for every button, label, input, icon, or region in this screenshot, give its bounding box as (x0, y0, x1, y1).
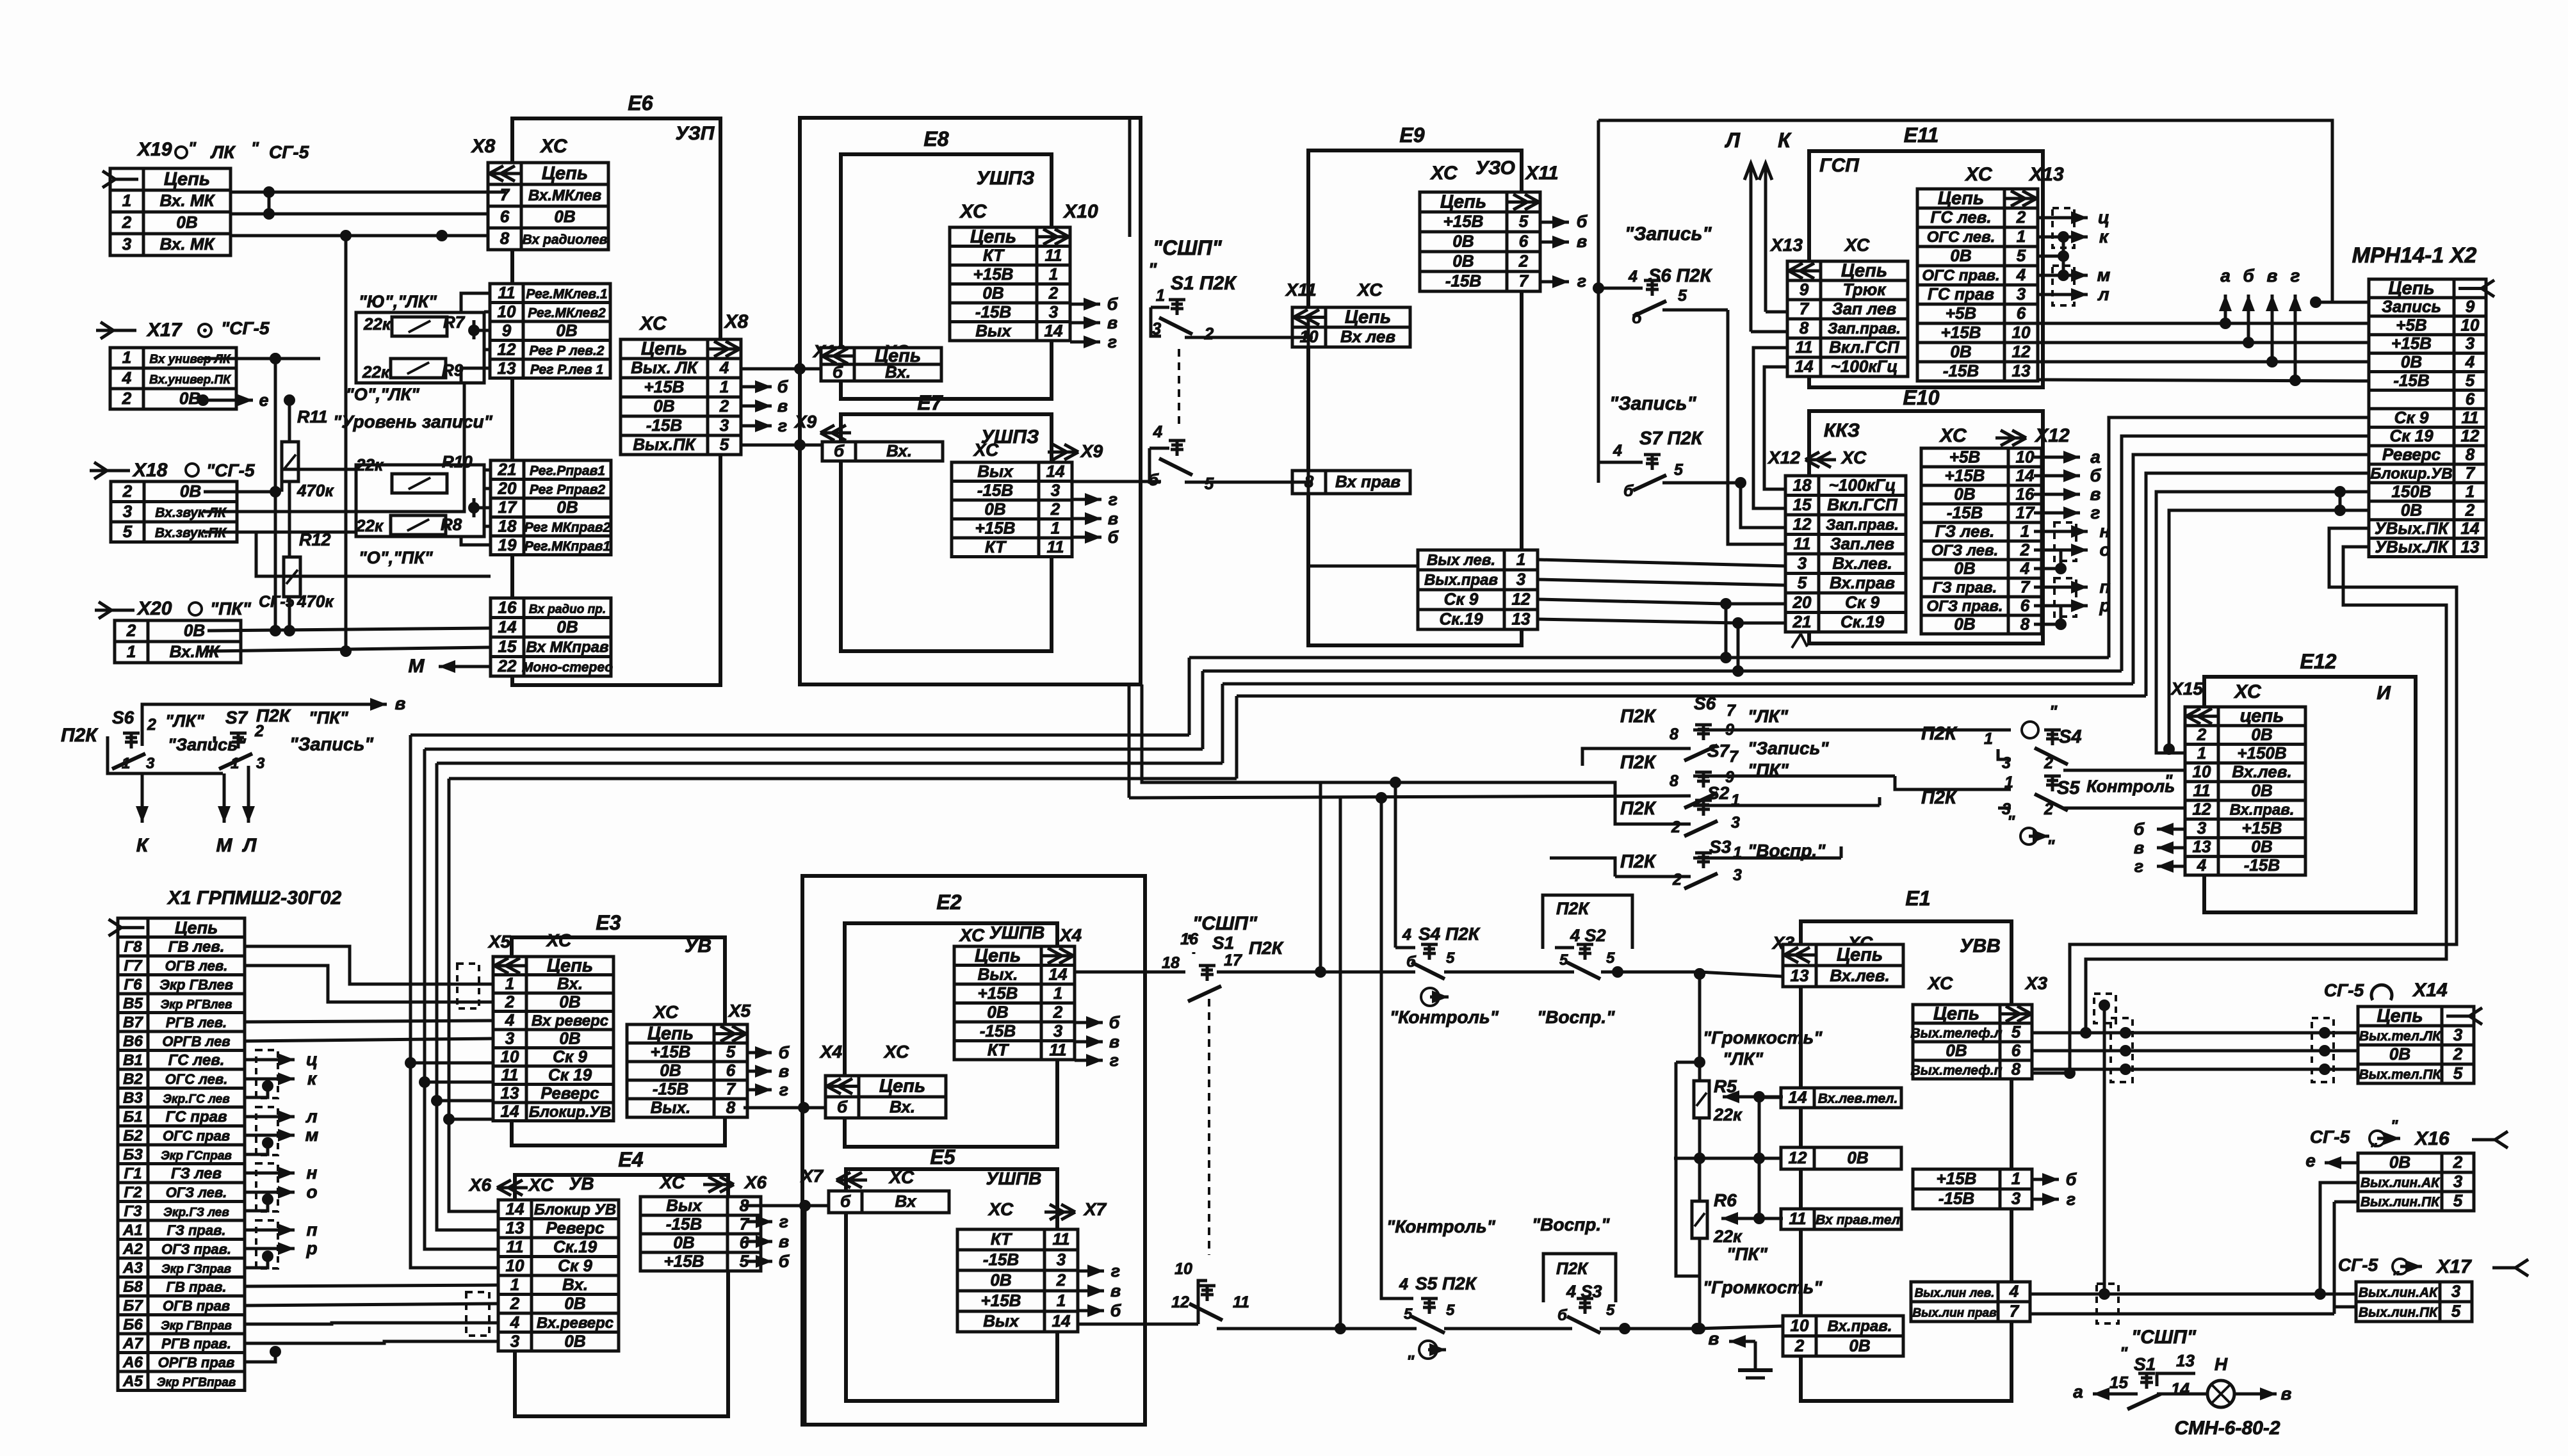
svg-text:ХС: ХС (1964, 164, 1993, 185)
svg-text:Вых: Вых (977, 462, 1014, 481)
svg-text:Х17: Х17 (2435, 1256, 2472, 1277)
shield box lin wires (2097, 1284, 2118, 1323)
svg-text:1: 1 (2466, 481, 2475, 501)
svg-text:Вх радиолев: Вх радиолев (523, 232, 608, 247)
svg-text:1: 1 (505, 974, 514, 993)
X1 screen jogs (245, 1086, 268, 1097)
svg-text:Вых. ЛК: Вых. ЛК (631, 358, 699, 377)
X4 out (954, 946, 1075, 1060)
svg-text:П2К: П2К (1620, 706, 1657, 727)
svg-text:Вых.лин.АК: Вых.лин.АК (2361, 1176, 2441, 1190)
svg-text:Х8: Х8 (724, 311, 749, 332)
arrows b v g from UZO (1540, 221, 1569, 224)
svg-text:Вых.: Вых. (651, 1098, 691, 1117)
svg-text:14: 14 (2461, 519, 2480, 538)
svg-text:19: 19 (498, 535, 517, 554)
svg-text:+5В: +5В (1946, 303, 1976, 323)
svg-text:ОРГВ прав: ОРГВ прав (158, 1354, 235, 1370)
svg-text:ОГС прав: ОГС прав (163, 1128, 230, 1144)
svg-text:R10: R10 (442, 452, 473, 471)
svg-text:П2К: П2К (1620, 752, 1657, 773)
svg-text:14: 14 (1052, 1311, 1071, 1331)
svg-text:Вых.ПК: Вых.ПК (633, 435, 696, 454)
svg-text:-15В: -15В (1943, 361, 1979, 380)
svg-text:КТ: КТ (987, 1040, 1009, 1059)
svg-text:22к: 22к (362, 362, 391, 382)
svg-text:3: 3 (123, 501, 133, 521)
svg-text:Х10: Х10 (1062, 201, 1098, 222)
E5 (846, 1169, 1057, 1401)
svg-text:Вых.тел.ПК: Вых.тел.ПК (2359, 1067, 2442, 1082)
svg-text:УВ: УВ (685, 935, 711, 957)
svg-text:0В: 0В (1452, 252, 1474, 271)
svg-text:7: 7 (2466, 463, 2476, 482)
svg-text:Вх.прав.: Вх.прав. (2230, 802, 2295, 819)
svg-text:Экр.ГЗ лев: Экр.ГЗ лев (163, 1206, 229, 1219)
svg-text:Ск 19: Ск 19 (548, 1065, 592, 1084)
svg-text:0В: 0В (2251, 781, 2272, 800)
svg-text:П2К: П2К (61, 725, 99, 746)
svg-text:б: б (1406, 953, 1417, 971)
svg-text:4: 4 (122, 368, 132, 387)
svg-text:б: б (777, 377, 789, 396)
svg-text:11: 11 (1796, 337, 1813, 357)
svg-text:Цепь: Цепь (2388, 278, 2434, 298)
svg-text:3: 3 (2017, 284, 2026, 303)
svg-text:5: 5 (1446, 1302, 1455, 1319)
svg-text:Е8: Е8 (923, 127, 948, 150)
svg-text:Зап.прав.: Зап.прав. (1826, 516, 1899, 533)
svg-text:7: 7 (2010, 1302, 2020, 1321)
svg-text:Х4: Х4 (819, 1042, 843, 1062)
svg-text:2: 2 (1056, 1270, 1066, 1290)
wires E9 to X12 inputs (1520, 565, 1524, 568)
svg-text:12: 12 (2012, 342, 2031, 361)
dashed link S1 bottom (1208, 999, 1210, 1255)
svg-text:": " (2165, 771, 2173, 790)
svg-text:S4 П2К: S4 П2К (1418, 924, 1481, 944)
svg-text:Вх.прав.: Вх.прав. (1828, 1318, 1892, 1335)
svg-text:11: 11 (1045, 245, 1062, 264)
wire UZO внутр (1520, 295, 1524, 298)
wire X18 to bus (204, 490, 275, 494)
R6 body (1692, 1201, 1707, 1238)
svg-text:20: 20 (498, 478, 517, 497)
svg-text:3: 3 (2466, 334, 2475, 353)
svg-text:Л: Л (242, 835, 257, 856)
svg-text:Цепь: Цепь (1440, 192, 1486, 213)
svg-text:ХС: ХС (546, 930, 572, 950)
svg-text:Цепь: Цепь (542, 163, 588, 184)
svg-text:КТ: КТ (991, 1229, 1012, 1249)
svg-text:11: 11 (1794, 534, 1811, 553)
svg-text:П2К: П2К (1620, 852, 1657, 872)
wires X18/X20 to E6 rows (282, 469, 356, 492)
arrows b v g from X8 output (740, 385, 772, 389)
svg-text:2: 2 (1794, 1336, 1805, 1355)
svg-text:Трюк: Трюк (1843, 280, 1887, 299)
svg-text:Вых лев.: Вых лев. (1427, 552, 1495, 569)
svg-text:р: р (305, 1238, 317, 1258)
svg-text:12: 12 (1512, 590, 1531, 609)
svg-text:Х14: Х14 (2412, 980, 2448, 1001)
svg-text:5: 5 (1606, 950, 1615, 967)
svg-text:4: 4 (1399, 1275, 1408, 1293)
svg-text:МРН14-1 Х2: МРН14-1 Х2 (2352, 243, 2477, 268)
arrows a b v g from E10 out (2034, 456, 2080, 459)
svg-text:г: г (779, 1080, 788, 1099)
R5 wiper (1723, 1096, 1783, 1099)
svg-text:+15В: +15В (1941, 323, 1981, 342)
svg-text:22к: 22к (363, 314, 392, 334)
svg-text:-15В: -15В (666, 1215, 702, 1234)
svg-text:Рег Рправ2: Рег Рправ2 (530, 482, 605, 497)
svg-text:X18: X18 (132, 460, 168, 481)
wire E1 out to X14 row3 (2032, 1068, 2358, 1071)
svg-text:л: л (2097, 284, 2109, 304)
svg-text:Цепь: Цепь (879, 1076, 925, 1097)
svg-text:Е5: Е5 (930, 1145, 955, 1169)
svg-text:10: 10 (506, 1256, 524, 1275)
svg-text:"СГ-5: "СГ-5 (206, 460, 255, 480)
svg-text:б: б (1107, 295, 1119, 314)
X3 (1783, 944, 1903, 987)
svg-text:"ЛК": "ЛК" (1723, 1049, 1764, 1069)
svg-text:Вх.лев.тел.: Вх.лев.тел. (1818, 1092, 1898, 1106)
svg-text:Х5: Х5 (727, 1001, 751, 1021)
svg-text:4: 4 (2009, 1282, 2019, 1301)
shield boxes X14 wires (2111, 1018, 2133, 1082)
svg-text:5: 5 (726, 1042, 736, 1062)
bus steps (1188, 658, 1191, 735)
svg-text:+15В: +15В (651, 1042, 691, 1062)
svg-text:ГЗ лев.: ГЗ лев. (1935, 522, 1995, 541)
svg-text:г: г (2134, 857, 2143, 876)
svg-text:1: 1 (122, 348, 131, 367)
svg-text:4: 4 (1628, 268, 1638, 286)
svg-text:18: 18 (1162, 954, 1180, 972)
X11b in (1292, 471, 1410, 494)
wires E9 out to E10 in (1308, 565, 1418, 568)
svg-text:5: 5 (2011, 1023, 2021, 1042)
svg-text:X17: X17 (146, 320, 183, 341)
svg-text:2: 2 (2453, 1044, 2463, 1064)
svg-text:Х15: Х15 (2170, 679, 2203, 699)
E11 out (1917, 188, 2038, 381)
svg-text:Е1: Е1 (1905, 887, 1930, 910)
svg-text:4: 4 (1613, 442, 1622, 460)
svg-text:Вых.лин.АК: Вых.лин.АК (2359, 1286, 2439, 1300)
X9 out (952, 462, 1072, 557)
svg-text:Цепь: Цепь (1837, 945, 1883, 966)
P2K box S3 (1543, 1254, 1616, 1302)
svg-text:в: в (2090, 484, 2101, 504)
svg-text:Цепь: Цепь (1345, 307, 1391, 328)
svg-text:4: 4 (2197, 855, 2207, 875)
svg-text:0В: 0В (176, 213, 197, 232)
svg-text:~100кГц: ~100кГц (1829, 475, 1896, 494)
wires E11 to MRN (2036, 322, 2369, 325)
svg-text:В2: В2 (123, 1071, 143, 1088)
svg-text:+15В: +15В (644, 377, 685, 396)
wire left channel to X3 (1321, 971, 1415, 974)
svg-text:П2К: П2К (1921, 724, 1958, 744)
svg-text:в: в (1709, 1329, 1719, 1348)
svg-text:Вых.лин лев.: Вых.лин лев. (1915, 1287, 1995, 1300)
svg-text:Вх реверс: Вх реверс (532, 1012, 608, 1030)
svg-text:в: в (1107, 313, 1117, 332)
svg-text:1: 1 (1051, 518, 1060, 537)
svg-text:8: 8 (1670, 772, 1678, 790)
svg-text:Вх.лев.: Вх.лев. (1830, 966, 1889, 985)
svg-text:0В: 0В (1946, 1041, 1967, 1060)
svg-text:Экр ГСправ: Экр ГСправ (161, 1149, 232, 1163)
dashed link S1 (1178, 349, 1180, 426)
svg-text:к: к (307, 1069, 318, 1088)
svg-text:S1: S1 (2134, 1354, 2156, 1374)
svg-text:9: 9 (502, 321, 512, 340)
svg-text:13: 13 (2461, 537, 2480, 556)
svg-text:Е7: Е7 (917, 391, 943, 414)
svg-text:б: б (2066, 1170, 2077, 1189)
svg-text:0В: 0В (184, 621, 205, 640)
svg-text:Г1: Г1 (124, 1165, 142, 1182)
arrows g v b from E7 (1073, 498, 1101, 501)
svg-text:+15В: +15В (1937, 1169, 1977, 1188)
svg-text:Е2: Е2 (936, 891, 961, 914)
svg-text:цепь: цепь (2240, 706, 2284, 727)
svg-text:Х9: Х9 (793, 412, 817, 432)
svg-text:П2К: П2К (1921, 788, 1958, 808)
table X19 (102, 168, 231, 255)
svg-text:Рег.Рправ1: Рег.Рправ1 (530, 464, 605, 478)
svg-text:10: 10 (2461, 315, 2480, 334)
svg-text:8: 8 (726, 1098, 736, 1117)
svg-text:ХС: ХС (959, 201, 987, 222)
E1 out3 (1911, 1282, 2030, 1322)
svg-text:11: 11 (498, 283, 516, 302)
svg-text:Рег Р лев.2: Рег Р лев.2 (530, 343, 605, 358)
svg-text:2: 2 (2044, 800, 2053, 818)
svg-text:ХС: ХС (883, 1042, 909, 1062)
svg-text:0В: 0В (1452, 232, 1474, 251)
lamp N (2157, 1393, 2208, 1396)
wires X13 to X12 (1753, 348, 1787, 508)
wires R8R10 to E6 rows (484, 469, 490, 472)
svg-text:Запись: Запись (2382, 296, 2441, 316)
bus horizontals east (1189, 656, 2109, 659)
svg-text:1: 1 (231, 755, 239, 772)
svg-text:3: 3 (1516, 570, 1526, 589)
svg-text:е: е (259, 391, 268, 410)
svg-text:А2: А2 (122, 1240, 143, 1258)
svg-text:S7 П2К: S7 П2К (1639, 428, 1704, 449)
svg-text:1: 1 (2020, 522, 2029, 541)
svg-text:7: 7 (1519, 271, 1529, 291)
R5 body (1694, 1081, 1709, 1118)
wires aux to X12 (1538, 560, 1785, 566)
svg-text:+15В: +15В (2391, 334, 2432, 353)
wire UVyh PK (2032, 528, 2457, 1073)
svg-text:ОГЗ прав.: ОГЗ прав. (1926, 598, 2003, 615)
E10 out (1921, 448, 2042, 635)
svg-text:0В: 0В (2401, 352, 2422, 371)
svg-text:СГ-5: СГ-5 (269, 142, 309, 162)
svg-text:"ЛК": "ЛК" (165, 711, 205, 731)
svg-text:R6: R6 (1714, 1190, 1737, 1210)
svg-text:6: 6 (2011, 1041, 2021, 1060)
svg-text:Цепь: Цепь (1938, 188, 1984, 209)
svg-text:ХС: ХС (1927, 973, 1953, 993)
svg-text:18: 18 (498, 516, 517, 535)
svg-text:а: а (2220, 266, 2231, 286)
svg-text:П2К: П2К (1556, 899, 1590, 918)
svg-text:S7: S7 (225, 708, 248, 727)
svg-text:К: К (1778, 129, 1792, 152)
svg-text:Экр ГВлев: Экр ГВлев (159, 976, 233, 992)
svg-text:Вх лев: Вх лев (1340, 327, 1395, 346)
svg-text:ХС: ХС (987, 1199, 1014, 1219)
svg-text:Реверс: Реверс (2382, 445, 2441, 464)
E1 r14 (1781, 1088, 1901, 1108)
svg-text:8: 8 (500, 229, 510, 248)
verticals from P2K feeds (1394, 782, 1397, 948)
svg-text:5: 5 (1446, 950, 1455, 967)
svg-text:5: 5 (123, 522, 133, 541)
svg-text:"Контроль": "Контроль" (1390, 1007, 1499, 1027)
svg-text:S5 П2К: S5 П2К (1415, 1274, 1477, 1293)
table X20 (115, 620, 241, 663)
svg-text:Цепь: Цепь (547, 955, 593, 976)
svg-text:3: 3 (122, 234, 132, 254)
svg-text:+15В: +15В (1443, 212, 1484, 231)
svg-text:Цепь: Цепь (1841, 261, 1887, 281)
svg-text:2: 2 (2197, 725, 2207, 744)
svg-text:а: а (2073, 1382, 2083, 1402)
wire UVyh LK (2032, 547, 2446, 1033)
svg-text:7: 7 (2020, 578, 2031, 597)
E10 (1809, 411, 2043, 643)
arrows b v g from E3 out (746, 1051, 772, 1055)
svg-text:12: 12 (498, 339, 516, 359)
control jack symbol right (2020, 828, 2037, 845)
svg-text:п: п (306, 1220, 317, 1240)
svg-text:ГС лев.: ГС лев. (168, 1051, 225, 1069)
svg-text:S6 П2К: S6 П2К (1648, 266, 1713, 286)
svg-text:S3: S3 (1709, 837, 1732, 857)
wire S5 to E12 row12 (2063, 807, 2185, 810)
svg-text:А1: А1 (122, 1222, 143, 1239)
svg-text:5: 5 (1519, 212, 1529, 231)
svg-text:Экр РГВправ: Экр РГВправ (157, 1376, 236, 1389)
svg-text:Вых.телеф.п: Вых.телеф.п (1911, 1064, 2003, 1078)
svg-text:13: 13 (498, 359, 516, 378)
svg-text:ХС: ХС (1356, 280, 1383, 300)
arrows b v g from E12 (2157, 828, 2185, 831)
svg-text:0В: 0В (653, 396, 674, 416)
svg-text:Л: Л (1725, 129, 1741, 152)
bus corner nest (410, 735, 493, 1063)
svg-text:А5: А5 (122, 1373, 143, 1390)
svg-text:0В: 0В (2389, 1044, 2410, 1064)
svg-text:ХС: ХС (1938, 425, 1967, 446)
E6 rows3 (491, 597, 613, 676)
svg-text:0В: 0В (564, 1293, 585, 1313)
svg-text:м: м (2097, 265, 2111, 285)
svg-text:"СШП": "СШП" (2131, 1327, 2197, 1348)
svg-text:0В: 0В (984, 499, 1005, 519)
svg-text:М: М (216, 835, 233, 856)
arrows ts k m l from E11 out (2036, 216, 2088, 220)
wire right channel to X3 (1340, 1327, 1417, 1331)
svg-text:Ск.19: Ск.19 (1439, 610, 1483, 629)
svg-text:+15В: +15В (981, 1291, 1021, 1310)
svg-text:14: 14 (498, 617, 517, 636)
svg-text:В3: В3 (123, 1089, 143, 1106)
dashed shield boxes X1 (256, 1050, 278, 1098)
svg-text:Е10: Е10 (1903, 386, 1940, 409)
svg-text:Х11: Х11 (1285, 280, 1317, 300)
wire X3 tel verticals (2103, 1005, 2106, 1294)
svg-text:ОГЗ лев.: ОГЗ лев. (1931, 542, 1998, 560)
svg-text:": " (2047, 836, 2055, 855)
wire E1 out to X14 row1 (2032, 1031, 2358, 1035)
wires X19 to X8 (231, 191, 506, 194)
svg-text:R8: R8 (441, 515, 462, 534)
svg-text:Х4: Х4 (1059, 925, 1082, 945)
svg-text:Рег МКправ2: Рег МКправ2 (524, 520, 611, 535)
svg-text:3: 3 (1733, 866, 1742, 884)
svg-text:+15В: +15В (2242, 818, 2282, 837)
svg-text:21: 21 (1792, 612, 1812, 631)
arrows a b v g MRN (2224, 295, 2227, 323)
svg-text:5: 5 (2466, 371, 2475, 390)
svg-text:Зап лев: Зап лев (1832, 299, 1897, 318)
svg-text:2: 2 (1053, 1002, 1063, 1021)
svg-text:П2К: П2К (1556, 1259, 1589, 1278)
svg-text:б: б (779, 1043, 790, 1062)
arrows n o p r from E10 out (2034, 530, 2088, 533)
svg-text:"Запись": "Запись" (1748, 738, 1829, 758)
svg-text:1: 1 (1053, 983, 1062, 1003)
svg-text:ГВ прав.: ГВ прав. (166, 1279, 226, 1295)
svg-text:"ПК": "ПК" (309, 708, 349, 727)
svg-text:ОГВ лев.: ОГВ лев. (165, 958, 228, 974)
svg-text:ОГС прав.: ОГС прав. (1922, 267, 1999, 284)
svg-text:15: 15 (498, 636, 517, 656)
E4 (515, 1175, 728, 1416)
svg-text:13: 13 (2012, 361, 2031, 380)
wire E9 vyh table link (1520, 318, 1524, 551)
wire E6 out to X10 (740, 368, 821, 371)
svg-text:22к: 22к (1713, 1227, 1743, 1246)
svg-text:ГВ лев.: ГВ лев. (168, 938, 225, 955)
dashed shields X1-E4 (466, 1292, 489, 1336)
svg-text:ОГЗ лев.: ОГЗ лев. (166, 1185, 227, 1201)
svg-text:Цепь: Цепь (1933, 1004, 1979, 1024)
E6 rows1 (490, 283, 610, 378)
svg-text:-15В: -15В (983, 1250, 1019, 1269)
svg-text:-15В: -15В (977, 480, 1013, 499)
svg-text:3: 3 (1798, 553, 1807, 572)
svg-text:ХС: ХС (959, 925, 985, 945)
svg-text:3: 3 (1053, 1021, 1063, 1040)
svg-text:17: 17 (1224, 951, 1242, 969)
svg-text:": " (188, 138, 197, 158)
X9 in (822, 441, 943, 461)
X16 (2358, 1153, 2474, 1211)
svg-text:7: 7 (740, 1215, 750, 1234)
